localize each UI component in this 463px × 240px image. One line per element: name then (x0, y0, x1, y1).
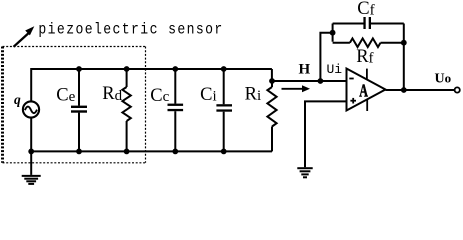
resistor Ri: zigzag (267, 87, 276, 126)
capacitor Ci: top lead (223, 69, 225, 104)
resistor Rd: zigzag (122, 87, 130, 121)
charge source q: circle (23, 101, 39, 117)
wire: bottom rail (31, 150, 272, 152)
svg-text:A: A (359, 81, 368, 101)
capacitor Ce: bottom lead (78, 113, 80, 152)
junction dot: Ce bottom (76, 149, 82, 155)
capacitor Cc: plates (168, 104, 184, 106)
junction dot: Rf right (401, 40, 407, 46)
output terminal Uo (455, 87, 460, 92)
wire: non-inverting input to ground (305, 101, 347, 167)
annotation arrow to label (14, 26, 35, 47)
svg-text:Ui: Ui (327, 62, 343, 77)
junction dot: bottom-left ground tap (28, 149, 34, 155)
capacitor Cc: top lead (174, 69, 176, 104)
capacitor Cc: bottom lead (174, 111, 176, 151)
junction dot: feedback tap (318, 78, 324, 84)
wire: left rail upper segment (30, 68, 32, 101)
resistor Ri: bottom lead (271, 127, 273, 152)
sensor boundary dotted box: top edge (3, 46, 146, 48)
junction dot: Rd bottom (124, 149, 130, 155)
svg-text:Ce: Ce (56, 86, 75, 106)
svg-text:Uo: Uo (435, 71, 452, 87)
resistor Rf: right wire (381, 42, 404, 44)
capacitor Ci: bottom lead (223, 112, 225, 152)
svg-text:Ci: Ci (200, 85, 217, 105)
charge source q: sine symbol (25, 107, 37, 114)
svg-text:Cf: Cf (357, 0, 374, 19)
junction dot: Ci bottom (221, 149, 227, 155)
op-amp: positive supply pin (366, 69, 368, 80)
feedback wire to output (right riser) (403, 24, 405, 91)
junction dot: Cc bottom (172, 149, 178, 155)
junction dot: feedback split (330, 30, 336, 36)
svg-text:Cc: Cc (150, 86, 169, 106)
junction dot: Rd top (124, 66, 130, 72)
svg-text:piezoelectric sensor: piezoelectric sensor (38, 21, 223, 38)
capacitor Cf: left wire (333, 23, 364, 25)
capacitor Ci: plates (216, 104, 232, 106)
svg-text:Ri: Ri (245, 84, 262, 104)
node H: input wire to op-amp (272, 80, 347, 82)
signal direction arrow (282, 85, 311, 92)
feedback riser wire (left) (320, 33, 332, 81)
sensor boundary dotted box: bottom edge (3, 162, 146, 164)
wire: step down to op-amp input level (271, 69, 273, 81)
junction dot: Ci top (221, 66, 227, 72)
junction dot: output feedback tap (401, 87, 407, 93)
resistor Rd: bottom lead (126, 121, 128, 151)
svg-text:Rd: Rd (102, 84, 122, 104)
capacitor Cf: right wire (371, 23, 404, 25)
resistor Ri: top lead (271, 81, 273, 87)
svg-text:H: H (299, 61, 311, 77)
wire: op-amp output (386, 89, 455, 91)
op-amp U1: triangle (347, 69, 386, 111)
ground (left) stem (30, 151, 32, 175)
sensor boundary dotted box: right edge (145, 47, 147, 163)
wire: split to Cf and Rf branches (332, 24, 334, 42)
svg-text:Rf: Rf (356, 47, 373, 67)
resistor Rf: zigzag (350, 38, 381, 47)
capacitor Ce: top lead (78, 69, 80, 106)
ground (left) symbol (22, 176, 41, 184)
op-amp: negative supply pin (366, 99, 368, 111)
junction dot: Cc top (172, 66, 178, 72)
sensor boundary dotted box: left edge (1, 47, 4, 163)
capacitor Cf: plates (363, 17, 365, 29)
junction dot: Ce top (76, 66, 82, 72)
capacitor Ce: plates (71, 106, 87, 108)
resistor Rd: top lead (126, 69, 128, 87)
wire: top rail (31, 68, 272, 70)
ground (right) symbol (297, 168, 312, 177)
op-amp: plus sign (350, 98, 356, 104)
junction dot: node H (269, 78, 275, 84)
resistor Rf: left wire (333, 42, 350, 44)
svg-text:q: q (14, 92, 21, 107)
op-amp: minus sign (349, 78, 353, 80)
wire: left rail lower segment (30, 117, 32, 152)
